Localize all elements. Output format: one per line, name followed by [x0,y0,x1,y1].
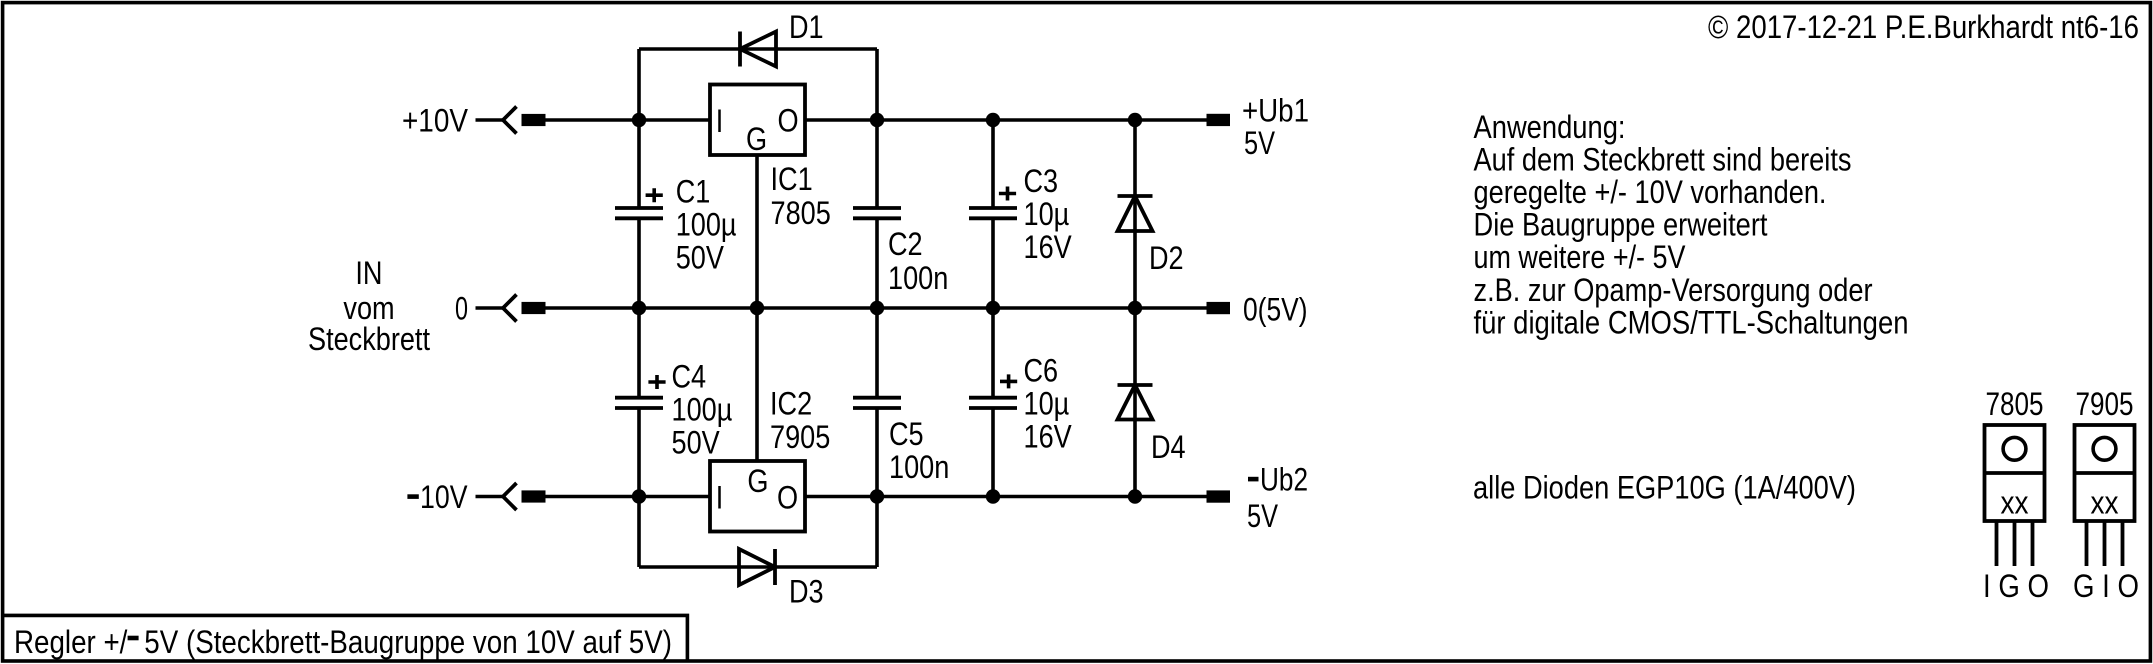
node -Ub2 5V label [1247,462,1308,534]
op-amp: voltage regulator IC2 7905 [710,461,805,532]
diode D4 [1118,385,1153,420]
svg-text:7905: 7905 [770,419,830,455]
svg-text:O: O [778,102,799,138]
node 0(5V) label [1243,292,1308,328]
svg-text:C6: C6 [1024,353,1059,389]
capacitor C5 [853,398,901,408]
svg-text:50V: 50V [672,425,720,461]
label C2 100n [888,226,948,296]
label IC1 7805 [771,161,831,231]
7905 package pinout [2073,386,2139,604]
junction [1128,489,1142,503]
junction [870,489,884,503]
svg-text:Die Baugruppe erweitert: Die Baugruppe erweitert [1474,207,1768,243]
wire D2/D4 column [1133,120,1137,497]
C3 polarity plus [999,187,1016,201]
svg-text:IC1: IC1 [771,161,813,197]
wire D3 bottom branch [639,565,877,569]
junction [750,301,764,315]
svg-text:10µ: 10µ [1024,196,1070,232]
svg-text:7805: 7805 [1986,386,2044,422]
svg-text:für digitale CMOS/TTL-Schaltun: für digitale CMOS/TTL-Schaltungen [1474,304,1909,340]
svg-text:D2: D2 [1149,240,1184,276]
svg-text:+10V: +10V [402,103,468,139]
svg-text:10V: 10V [420,479,468,515]
svg-text:5V: 5V [1244,125,1275,161]
svg-text:I: I [716,480,724,516]
svg-text:G I O: G I O [2073,568,2139,604]
svg-text:10µ: 10µ [1024,386,1070,422]
svg-text:© 2017-12-21 P.E.Burkhardt nt6: © 2017-12-21 P.E.Burkhardt nt6-16 [1708,9,2139,45]
svg-text:D1: D1 [789,9,824,45]
title box [3,615,688,660]
svg-text:D3: D3 [789,574,824,610]
copyright note [1708,9,2139,45]
capacitor C6 [969,398,1017,408]
junction [632,113,646,127]
node +Ub1 5V label [1242,93,1309,162]
svg-text:C1: C1 [676,173,711,209]
wire C2/C5 column [875,49,879,567]
junction [1128,113,1142,127]
node 0 label [455,291,468,327]
svg-text:100n: 100n [888,260,948,296]
svg-text:5V (Steckbrett-Baugruppe von 1: 5V (Steckbrett-Baugruppe von 10V auf 5V) [144,624,672,660]
junction [986,489,1000,503]
input terminal -10V [476,483,546,510]
svg-text:z.B. zur Opamp-Versorgung oder: z.B. zur Opamp-Versorgung oder [1474,272,1873,308]
svg-text:xx: xx [2001,485,2029,521]
op-amp: voltage regulator IC1 7805 [710,85,805,157]
svg-text:xx: xx [2091,485,2119,521]
output terminal -Ub2 [1207,490,1231,502]
svg-text:Regler +/: Regler +/ [14,624,128,660]
svg-text:C5: C5 [889,416,924,452]
svg-text:Steckbrett: Steckbrett [308,321,430,357]
svg-text:100µ: 100µ [672,392,733,428]
svg-text:16V: 16V [1024,419,1072,455]
svg-text:+Ub1: +Ub1 [1242,93,1309,129]
svg-text:Ub2: Ub2 [1260,462,1308,498]
junction [870,113,884,127]
junction [1128,301,1142,315]
svg-text:IN: IN [355,255,382,291]
7805 package pinout [1983,386,2049,604]
wire +10V rail [546,118,1207,122]
svg-text:C4: C4 [672,359,707,395]
svg-text:G: G [746,121,767,157]
label D4 [1151,429,1186,465]
output terminal 0(5V) [1207,302,1231,314]
junction [632,301,646,315]
svg-text:G: G [747,463,768,499]
svg-text:geregelte +/- 10V vorhanden.: geregelte +/- 10V vorhanden. [1474,174,1827,210]
node +10V label [402,103,468,139]
C4 polarity plus [648,375,665,389]
label IN vom Steckbrett [308,255,430,357]
label D3 [789,574,824,610]
label C6 10u 16V [1024,353,1072,455]
C1 polarity plus [646,188,663,202]
wire C1/C4 column [637,49,641,567]
junction [986,113,1000,127]
diode D1 [740,32,776,67]
C6 polarity plus [1000,374,1017,388]
svg-text:50V: 50V [676,239,724,275]
capacitor C2 [853,208,901,218]
capacitor C3 [969,208,1017,218]
label C5 100n [889,416,949,485]
svg-text:7905: 7905 [2076,386,2134,422]
svg-text:16V: 16V [1024,229,1072,265]
capacitor C1 [615,208,663,218]
junction [870,301,884,315]
junction [986,301,1000,315]
wire C3/C6 column [991,120,995,497]
label D2 [1149,240,1184,276]
svg-text:D4: D4 [1151,429,1186,465]
svg-text:I: I [716,103,724,139]
wire IC2 ground pin [755,308,759,461]
label C1 100u 50V [676,173,737,275]
svg-text:C3: C3 [1024,163,1059,199]
diode D2 [1118,196,1153,231]
input terminal 0 [476,295,546,322]
svg-text:100µ: 100µ [676,206,737,242]
wire D1 top branch [639,47,877,51]
junction [632,489,646,503]
wire -10V rail [546,495,1207,499]
svg-text:C2: C2 [888,226,923,262]
note application text [1474,109,1909,341]
output terminal +Ub1 [1207,114,1231,126]
svg-text:I G O: I G O [1983,568,2049,604]
node -10V label [407,479,467,515]
svg-text:Anwendung:: Anwendung: [1474,109,1626,145]
svg-text:0: 0 [455,291,468,327]
svg-text:IC2: IC2 [770,386,812,422]
svg-text:Auf dem Steckbrett sind bereit: Auf dem Steckbrett sind bereits [1474,141,1852,177]
svg-text:0(5V): 0(5V) [1243,292,1308,328]
svg-text:um weitere +/- 5V: um weitere +/- 5V [1474,239,1686,275]
svg-text:O: O [777,480,798,516]
svg-text:100n: 100n [889,449,949,485]
svg-text:5V: 5V [1247,498,1278,534]
input terminal +10V [476,107,546,134]
capacitor C4 [615,398,663,408]
note diodes text [1473,469,1856,505]
svg-text:7805: 7805 [771,195,831,231]
diode D3 [739,549,775,585]
label C3 10u 16V [1024,163,1072,265]
wire 0V rail [546,306,1207,310]
wire IC1 ground pin [755,155,759,308]
label IC2 7905 [770,386,830,455]
label C4 100u 50V [672,359,733,461]
svg-text:alle Dioden EGP10G (1A/400V): alle Dioden EGP10G (1A/400V) [1473,469,1856,505]
label D1 [789,9,824,45]
